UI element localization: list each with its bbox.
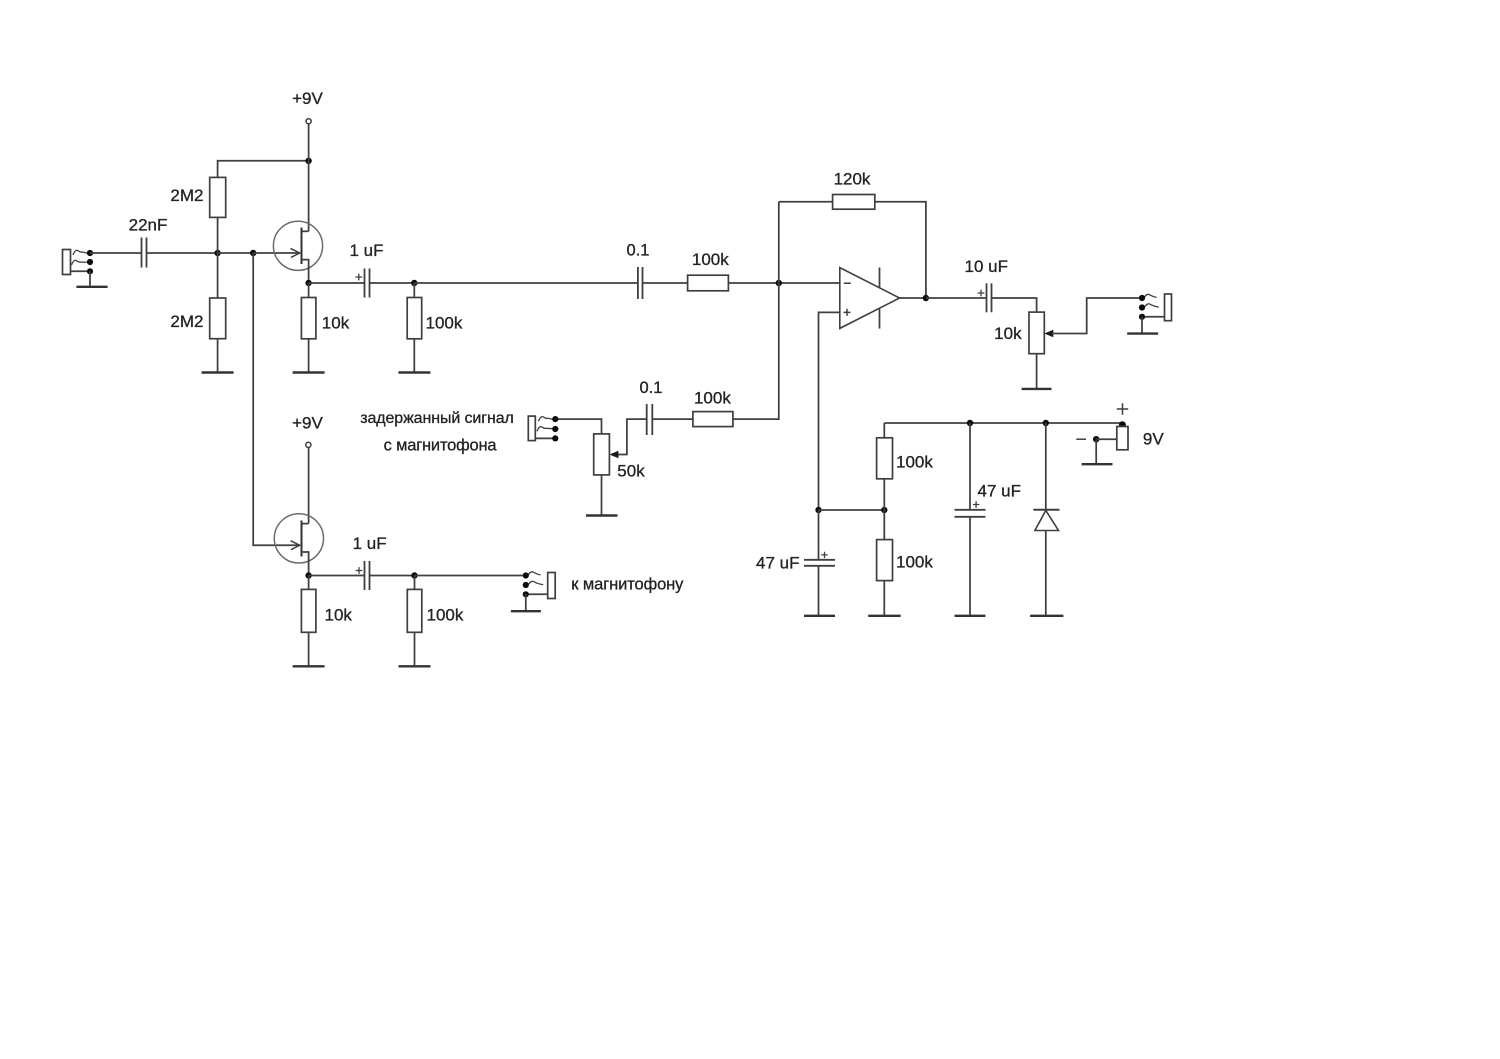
wire node D down to lower path [733,283,779,419]
potentiometer P2 10k body [1029,312,1044,354]
transistor Q2 (JFET) circle [274,514,323,563]
capacitor C5 10uF plates [986,283,988,312]
wire node D up to feedback rail [778,202,780,283]
wire C3 to R5 [643,282,688,284]
capacitor C4 0.1 plates [646,404,648,435]
node G junction [815,507,821,513]
resistor R1 2M2 [210,177,226,217]
svg-text:120k: 120k [834,170,871,189]
svg-text:1 uF: 1 uF [349,241,383,260]
Q1 drain step [302,230,309,232]
wire rail down to C8 [969,423,971,510]
wire C5 to P2 top [992,298,1037,312]
op-amp power pin bottom [879,309,881,329]
ground at J3 [1127,332,1158,334]
svg-text:100k: 100k [426,314,463,333]
wire P1 top from jack J2 [555,419,601,434]
wire 22nF to node A [147,252,218,254]
wire rail down to diode D1 [1045,423,1047,510]
svg-text:100k: 100k [694,389,731,408]
resistor R5 100k horizontal [688,275,729,291]
wire S2 to C6 [309,575,365,577]
node H junction [881,507,887,513]
wire node C to C3 [414,282,638,284]
svg-text:100k: 100k [692,250,729,269]
ground at battery [1082,463,1113,465]
node rail-C8 junction [967,420,973,426]
capacitor C2 1uF plates [364,269,366,298]
wire R10 top to rail [883,423,885,438]
Q2 channel bar [301,521,303,557]
jack J3 tip dot [1139,295,1145,301]
jack J2 sleeve wire [535,437,553,439]
wire S1 to C2 [309,282,365,284]
svg-text:+9V: +9V [292,89,323,108]
jack J1 tip contact squiggle [73,250,87,255]
C6 plus sign [356,567,363,574]
op-amp plus sign [844,309,851,316]
svg-text:50k: 50k [617,462,645,481]
node D junction [776,280,782,286]
wire R9 to ground [414,632,416,666]
wire T2 down to Q2 drain [308,448,310,524]
jack J4 body (to tape recorder) [548,573,556,599]
ground at R11 [868,615,901,617]
ground at R4 [398,371,430,373]
Q2 gate arrowhead [291,541,300,550]
svg-text:47 uF: 47 uF [756,554,799,573]
node rail-diode junction [1043,420,1049,426]
wire node A up [217,177,219,253]
resistor R6 120k [833,195,875,210]
wire feedback right segment down to node E [875,202,926,298]
transistor Q1 (JFET) circle [273,221,322,270]
wire J1 tip to 22nF [90,252,142,254]
svg-text:с магнитофона: с магнитофона [384,436,498,454]
svg-text:100k: 100k [427,606,464,625]
wire P2 bottom to ground [1036,354,1038,389]
ground at P2 [1022,388,1052,390]
jack J2 sleeve dot [552,435,558,441]
wire R7 to C4 [652,418,693,420]
ground at P1 [586,514,618,516]
C7 plus sign [821,552,827,558]
wire op-amp output to node E [900,297,926,299]
wire J1 sleeve to ground [89,271,91,286]
battery BT1 9V body [1117,427,1128,450]
ground at R2 [202,371,234,373]
svg-text:10 uF: 10 uF [965,257,1008,276]
svg-text:100k: 100k [896,553,933,572]
node battery minus junction [1093,436,1099,442]
battery plus sign [1117,403,1128,414]
capacitor C3 0.1 plates [637,267,639,299]
jack J3 body (output) [1165,294,1172,321]
capacitor C6 1uF plates [364,561,366,590]
ground at C8 [955,615,986,617]
wire P2 wiper to jack J3 [1052,298,1139,334]
wire R1 top rail [218,161,309,178]
node C junction [411,280,417,286]
pot P2 wiper arrowhead [1044,330,1053,338]
power rail wire [884,422,1122,424]
jack J3 sleeve wire [1144,316,1165,318]
svg-text:задержанный сигнал: задержанный сигнал [360,410,514,427]
jack J4 tip dot [523,572,529,578]
jack J3 ring dot [1139,304,1145,310]
jack J4 ring contact squiggle [529,581,544,584]
wire node B down to Q2 gate [253,253,300,545]
jack J4 ring dot [523,582,529,588]
ground at J1 [76,286,107,288]
wire op-amp plus input step [819,312,840,510]
wire node A to node B [218,252,254,254]
jack J4 sleeve dot [523,591,529,597]
wire P1 bottom to ground [601,475,603,516]
svg-text:47 uF: 47 uF [978,482,1021,501]
battery minus sign [1076,438,1086,440]
wire node F down to R9 [414,576,416,590]
svg-text:2M2: 2M2 [170,186,203,205]
jack J3 sleeve dot [1139,314,1145,320]
jack J3 ring contact squiggle [1145,304,1159,307]
battery top terminal dot [1119,421,1126,428]
Q1 channel bar [301,228,303,265]
wire C2 to node C [370,282,415,284]
wire C6 to node F [370,575,415,577]
svg-text:0.1: 0.1 [640,379,663,397]
node E output junction [923,295,929,301]
svg-text:9V: 9V [1143,429,1164,448]
input jack J1 body [63,250,71,275]
node F junction [411,572,417,578]
ground at C7 [804,615,835,617]
Q1 source step [302,260,309,283]
node +9V rail junction [305,158,311,164]
svg-text:к магнитофону: к магнитофону [571,576,684,594]
wire J4 sleeve to ground [525,594,527,611]
wire R8 to ground [308,632,310,666]
wire C7 to ground [818,566,820,616]
ground at J4 [511,610,541,612]
resistor R11 100k lower [877,540,893,581]
jack J3 tip contact squiggle [1144,294,1156,297]
svg-text:10k: 10k [325,606,353,625]
node A junction [214,250,220,256]
wire node A down to R2 [217,253,219,298]
resistor R3 10k [301,298,316,339]
ground at R9 [399,665,431,667]
wire node G to node H [819,509,885,511]
resistor R2 2M2 [210,298,226,339]
wire node H down to R11 [883,510,885,540]
capacitor C8 47uF plates [955,509,986,511]
resistor R9 100k [407,589,422,632]
+9V terminal T1 [306,119,311,124]
jack J4 tip contact squiggle [528,572,540,575]
op-amp U1 triangle [840,268,900,329]
wire feedback left segment [779,201,833,203]
diode D1 cathode bar [1033,509,1059,511]
wire S1 down to R3 [308,283,310,298]
wire J3 sleeve to ground [1141,317,1143,334]
wire R4 to ground [413,339,415,373]
jack J1 sleeve dot [87,268,93,274]
svg-text:100k: 100k [896,452,933,471]
wire node C down to R4 [413,283,415,298]
svg-text:+9V: +9V [292,413,323,432]
wire R5 to op-amp minus input through node D [728,282,839,284]
jack J1 ring contact squiggle [72,260,87,265]
wire node F to jack J4 [415,575,523,577]
C8 plus sign [973,501,979,507]
wire R2 to ground [217,339,219,373]
jack J2 tip dot [552,416,558,422]
svg-text:22nF: 22nF [129,216,168,235]
diode D1 triangle [1035,510,1059,530]
wire C4 left to wiper step [617,419,647,454]
resistor R10 100k upper [877,438,893,479]
svg-text:10k: 10k [994,324,1022,343]
jack J2 ring dot [552,426,558,432]
resistor R7 100k horizontal [693,412,733,427]
+9V terminal T2 [306,442,311,447]
capacitor 22nF plates [141,238,143,268]
wire battery minus to body [1096,438,1117,440]
jack J2 body (delayed signal) [528,416,535,441]
resistor R8 10k [301,589,316,632]
jack J2 ring contact squiggle [537,427,553,432]
wire node E to C5 [926,297,987,299]
resistor R4 100k [407,298,422,339]
svg-text:0.1: 0.1 [627,242,650,260]
pot P1 wiper arrowhead [609,451,618,459]
wire R3 to ground [308,339,310,373]
node B junction [250,250,256,256]
wire node H up to R10 [883,479,885,510]
jack J1 ring dot [87,259,93,265]
potentiometer P1 50k body [594,434,610,475]
node S2 source junction [305,572,311,578]
Q1 gate arrowhead [291,248,300,257]
op-amp minus sign [844,282,851,284]
wire C8 to ground [969,517,971,616]
jack J4 sleeve wire [528,593,548,595]
C2 plus sign [355,274,362,281]
ground at R8 [293,665,325,667]
node S1 source junction [305,280,311,286]
wire battery minus to ground [1095,439,1097,464]
wire node B to Q1 gate [253,252,300,254]
C5 plus sign [978,290,985,297]
wire S2 down to R8 [308,576,310,590]
jack J1 tip dot [87,250,93,256]
svg-text:1 uF: 1 uF [353,534,387,553]
op-amp power pin top [879,268,881,289]
jack J1 sleeve wire [71,270,89,272]
wire diode to ground [1045,531,1047,616]
svg-text:10k: 10k [322,314,350,333]
Q2 source step [302,552,309,576]
Q2 drain step [302,523,309,525]
capacitor C7 47uF plates [804,559,835,561]
wire R11 to ground [883,581,885,616]
wire T1 down to Q1 drain [308,124,310,231]
ground at R3 [293,371,325,373]
svg-text:2M2: 2M2 [170,312,203,331]
jack J2 tip contact squiggle [539,417,554,422]
ground at D1 [1030,615,1063,617]
wire node G down to C7 [818,510,820,560]
